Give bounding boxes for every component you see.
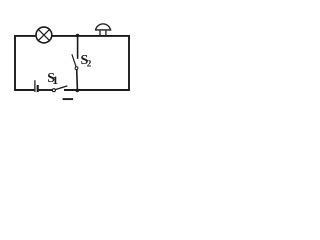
svg-text:2: 2 [87,58,92,68]
svg-text:1: 1 [52,73,58,87]
